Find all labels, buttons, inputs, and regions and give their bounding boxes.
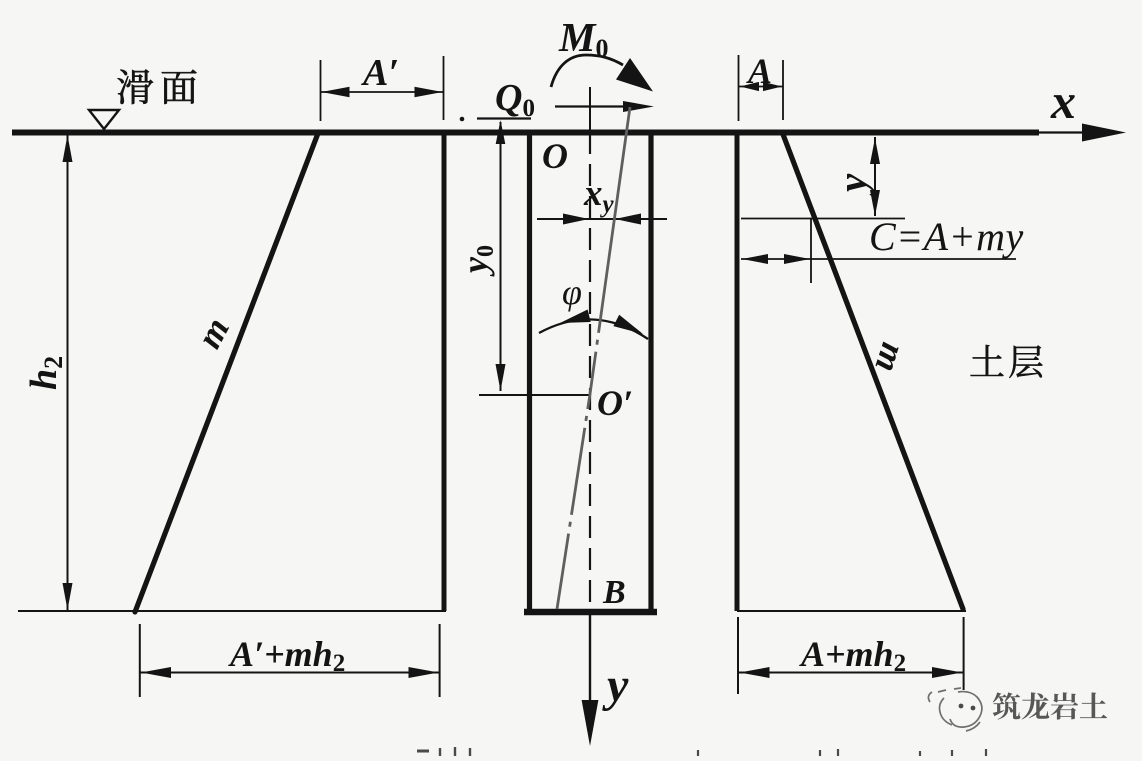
ground line (sliding surface) bbox=[12, 130, 1039, 136]
watermark text zhulong yantu bbox=[993, 692, 1107, 719]
svg-text:x: x bbox=[1050, 73, 1076, 129]
label huamian (sliding surface) bbox=[118, 69, 197, 104]
dimension y (right) bbox=[870, 137, 880, 216]
dimension A'+mh2 extension lines bbox=[140, 624, 440, 697]
pile bottom bbox=[524, 609, 657, 615]
label m on left slope bbox=[189, 311, 237, 355]
svg-text:φ: φ bbox=[562, 272, 582, 312]
svg-text:y: y bbox=[602, 659, 629, 712]
dimension y0 bbox=[496, 120, 506, 391]
deflected pile axis (grey) bbox=[557, 107, 630, 609]
svg-text:B: B bbox=[602, 574, 626, 611]
dimension A+mh2 bbox=[738, 667, 964, 678]
reference dot bbox=[460, 117, 465, 122]
svg-text:O: O bbox=[542, 136, 568, 176]
left soil wedge vertical edge bbox=[442, 131, 447, 611]
cropped caption remnants at bottom edge bbox=[417, 747, 986, 756]
y-axis bbox=[582, 611, 599, 746]
dimension h2 line bbox=[63, 134, 73, 610]
slope intersection tick bbox=[810, 219, 812, 283]
dimension x_y bbox=[537, 214, 667, 225]
sliding-surface marker triangle bbox=[89, 110, 119, 129]
label y0 bbox=[455, 245, 499, 277]
dimension A bbox=[739, 82, 784, 91]
dimension A'+mh2 bbox=[140, 667, 440, 678]
rotation angle phi arc bbox=[539, 310, 648, 340]
dimension C line bbox=[741, 254, 1016, 264]
svg-text:A: A bbox=[746, 51, 772, 91]
pile right edge bbox=[648, 131, 653, 612]
pile centerline above ground bbox=[589, 87, 591, 132]
right bottom reference line bbox=[737, 610, 966, 612]
dimension A' extension lines bbox=[321, 56, 444, 121]
svg-text:C=A+my: C=A+my bbox=[869, 214, 1024, 259]
watermark logo bbox=[928, 688, 982, 731]
label m on right slope bbox=[867, 338, 914, 377]
x-axis bbox=[1036, 124, 1126, 142]
label h2 bbox=[23, 356, 68, 390]
Q0 reference underline bbox=[477, 117, 531, 119]
dimension A extension lines bbox=[739, 55, 784, 121]
svg-text:A+mh2: A+mh2 bbox=[799, 634, 906, 677]
left bottom reference line bbox=[18, 610, 446, 612]
right soil wedge vertical edge bbox=[735, 131, 740, 611]
svg-text:A′: A′ bbox=[361, 52, 399, 94]
pile centerline dashed bbox=[589, 132, 591, 611]
pile left edge bbox=[527, 131, 532, 612]
label soil layer (tuceng) bbox=[970, 345, 1042, 378]
depth y level line bbox=[741, 218, 905, 220]
left soil wedge slanted edge bbox=[135, 132, 319, 612]
svg-text:A′+mh2: A′+mh2 bbox=[228, 634, 345, 677]
dimension A' bbox=[321, 87, 444, 97]
label y (right) bbox=[829, 173, 875, 197]
right soil wedge slanted edge bbox=[783, 133, 964, 609]
dimension A+mh2 extension lines bbox=[738, 617, 964, 694]
moment M0 arc arrow bbox=[551, 55, 653, 92]
svg-text:O′: O′ bbox=[597, 383, 633, 423]
O' level line bbox=[479, 394, 589, 396]
force Q0 arrow bbox=[555, 101, 654, 112]
